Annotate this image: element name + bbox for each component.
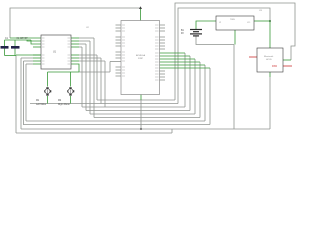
svg-text:ATMEGA: ATMEGA <box>136 54 146 57</box>
svg-text:VO: VO <box>247 22 250 24</box>
svg-text:Left Motor: Left Motor <box>36 103 47 106</box>
svg-text:X1 CRYST: X1 CRYST <box>17 38 29 40</box>
svg-text:7805: 7805 <box>230 19 236 21</box>
svg-text:Right Motor: Right Motor <box>58 103 70 106</box>
svg-text:RXD: RXD <box>272 65 277 68</box>
svg-text:HC05: HC05 <box>266 59 272 61</box>
svg-text:328P: 328P <box>138 58 144 60</box>
svg-text:Bluetooth: Bluetooth <box>264 55 274 58</box>
svg-text:9V: 9V <box>181 33 184 35</box>
